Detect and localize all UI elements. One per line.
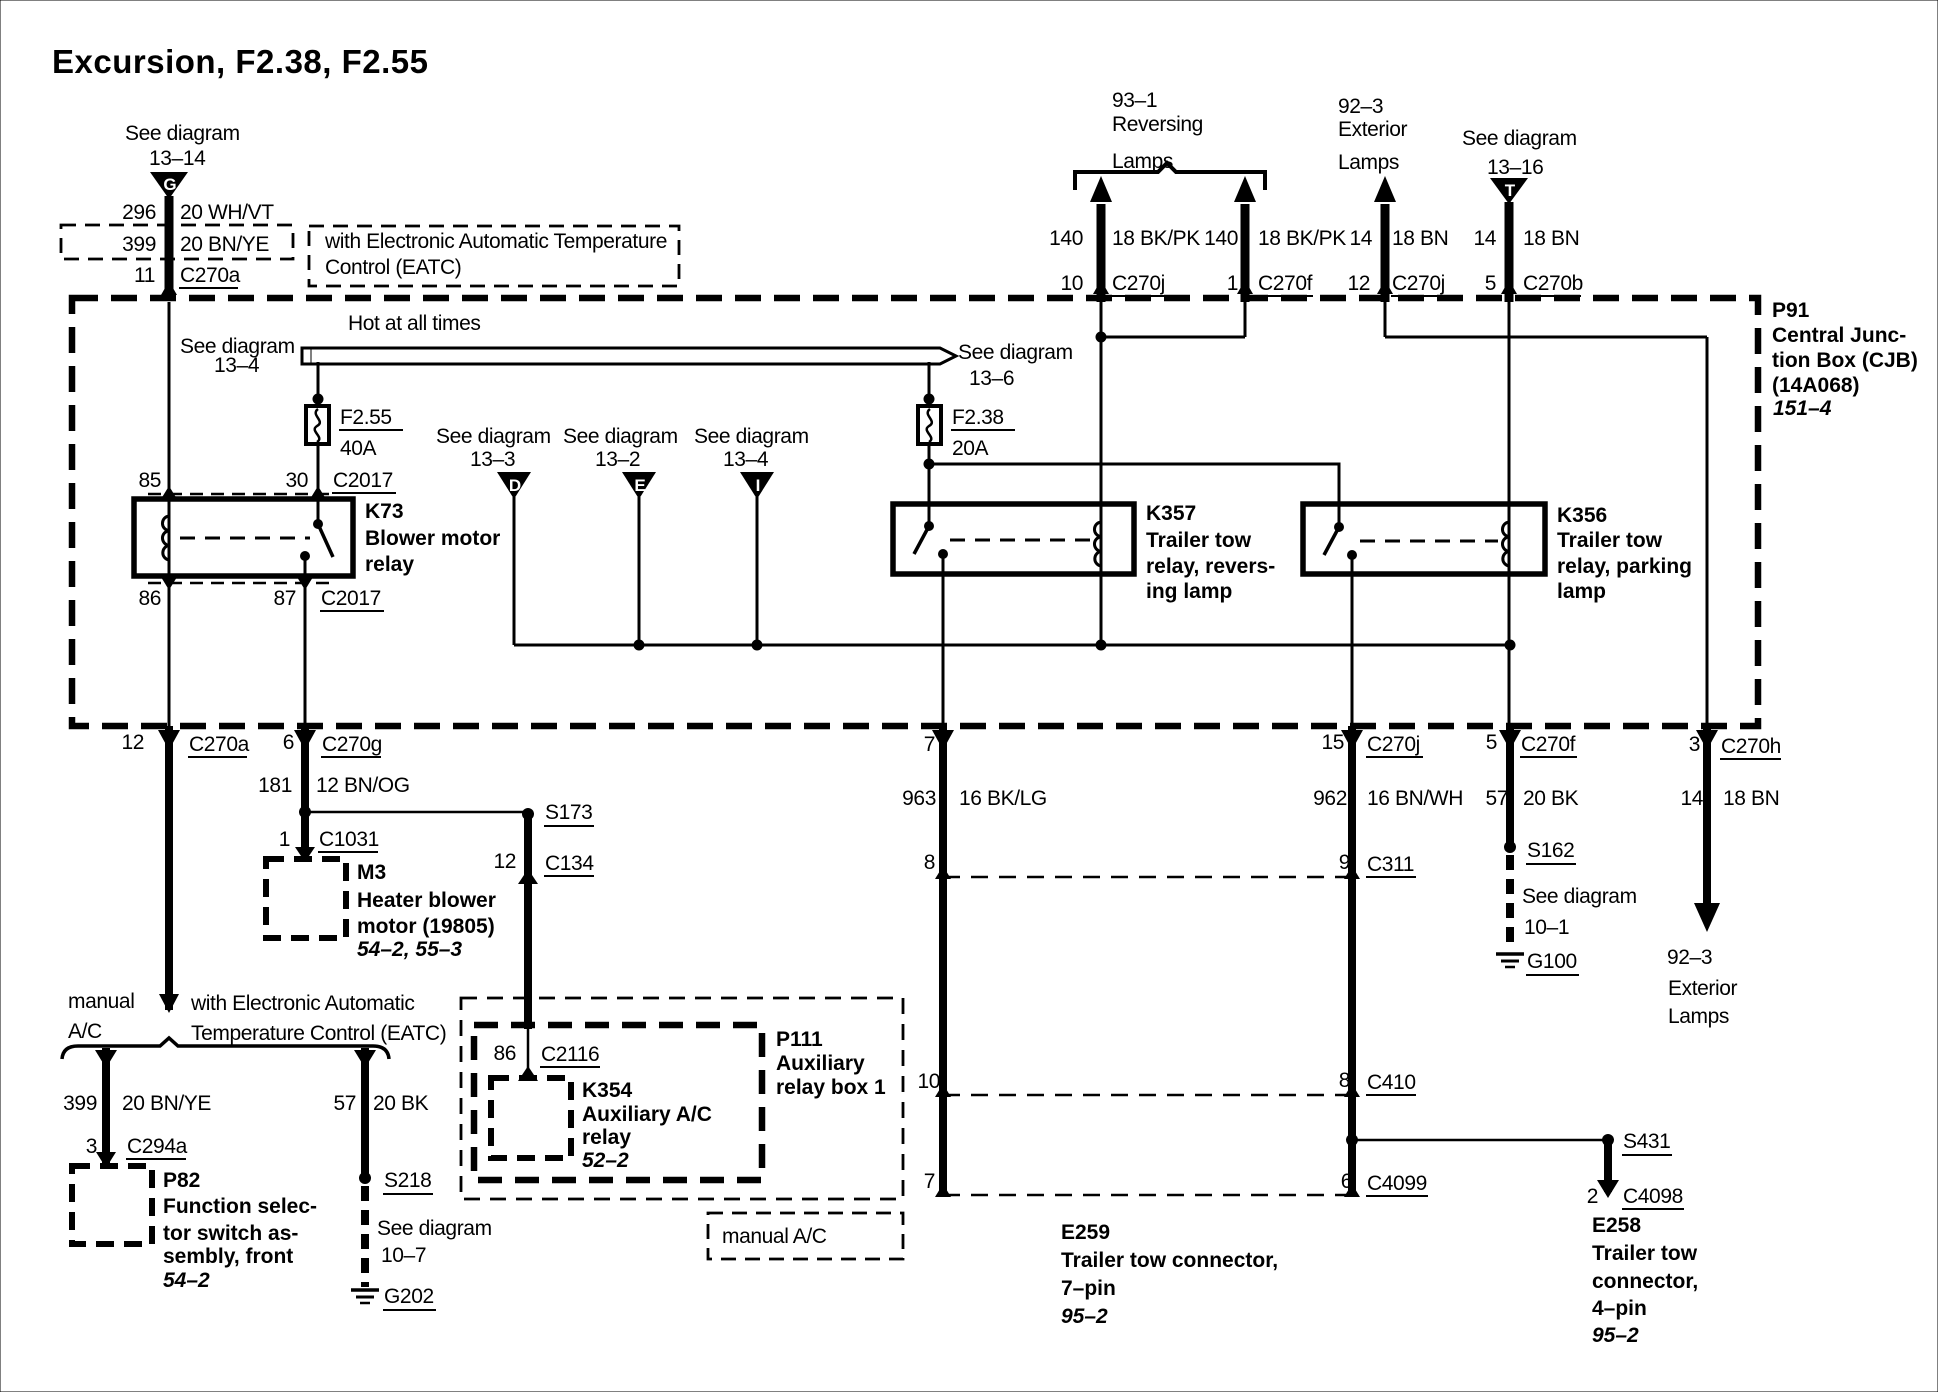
wire E259 trailer tow 7-pin xyxy=(939,726,947,1195)
svg-text:86: 86 xyxy=(493,1042,516,1065)
svg-text:Auxiliary: Auxiliary xyxy=(776,1052,865,1075)
svg-text:C2017: C2017 xyxy=(321,587,381,610)
svg-text:tion Box (CJB): tion Box (CJB) xyxy=(1772,349,1918,372)
wire G down to C270a xyxy=(165,196,174,294)
svg-text:C134: C134 xyxy=(545,852,594,875)
wire K357 switch out to pin 7 xyxy=(942,574,945,726)
svg-text:15: 15 xyxy=(1321,731,1344,754)
relay K73 box xyxy=(134,499,353,576)
svg-text:Exterior: Exterior xyxy=(1338,118,1408,141)
svg-text:140: 140 xyxy=(1204,227,1238,250)
node E triangle xyxy=(622,472,656,499)
wire C270a exit down to A/C split xyxy=(165,726,173,1010)
wire S218 to G202 dashed xyxy=(361,1186,369,1287)
svg-text:20 WH/VT: 20 WH/VT xyxy=(180,201,274,224)
svg-text:7: 7 xyxy=(924,733,935,756)
svg-text:12: 12 xyxy=(493,850,516,873)
svg-text:manual: manual xyxy=(68,990,134,1013)
wire pin 87 down to C270g exit xyxy=(304,576,307,726)
splice S218 dot xyxy=(359,1172,371,1184)
svg-text:C270g: C270g xyxy=(322,733,382,756)
svg-text:C270a: C270a xyxy=(180,264,241,287)
svg-text:Blower motor: Blower motor xyxy=(365,527,500,550)
svg-text:13–2: 13–2 xyxy=(595,448,640,471)
pin 85 connector arrow xyxy=(161,486,177,499)
svg-text:95–2: 95–2 xyxy=(1592,1324,1639,1347)
junction dot to S431 xyxy=(1346,1134,1358,1146)
svg-text:with Electronic Automatic: with Electronic Automatic xyxy=(190,992,414,1015)
wire EATC branch to S218 xyxy=(361,1048,369,1180)
svg-text:K73: K73 xyxy=(365,500,404,523)
node D triangle xyxy=(497,472,531,499)
wire S431 down to C4098 xyxy=(1604,1140,1612,1192)
svg-text:14: 14 xyxy=(1473,227,1496,250)
svg-text:2: 2 xyxy=(1587,1185,1598,1208)
svg-text:motor (19805): motor (19805) xyxy=(357,915,495,938)
svg-text:sembly, front: sembly, front xyxy=(163,1245,293,1268)
svg-text:57: 57 xyxy=(333,1092,356,1115)
dashed row to C4099 xyxy=(943,1194,1352,1197)
svg-text:181: 181 xyxy=(258,774,292,797)
svg-text:C4098: C4098 xyxy=(1623,1185,1683,1208)
svg-text:296: 296 xyxy=(122,201,156,224)
svg-text:18 BN: 18 BN xyxy=(1523,227,1579,250)
svg-text:M3: M3 xyxy=(357,861,386,884)
K357 coil xyxy=(1094,522,1101,566)
dashed row to C410 xyxy=(943,1094,1352,1097)
wire from D xyxy=(513,497,516,645)
svg-text:Heater blower: Heater blower xyxy=(357,889,496,912)
wire C270j pin10 down to K357 coil and return line xyxy=(1100,302,1103,645)
svg-text:4–pin: 4–pin xyxy=(1592,1297,1647,1320)
svg-text:See diagram: See diagram xyxy=(563,425,678,448)
brace over reversing lamp arrows xyxy=(1075,163,1265,190)
svg-text:Function selec-: Function selec- xyxy=(163,1195,317,1218)
svg-text:P82: P82 xyxy=(163,1169,200,1192)
svg-text:Temperature Control (EATC): Temperature Control (EATC) xyxy=(191,1022,446,1045)
wire from I xyxy=(756,497,759,645)
wire S173 down to C2116 xyxy=(524,814,532,1029)
connector C2017 dashed line top xyxy=(148,493,332,496)
relay K357 box xyxy=(893,504,1134,574)
wire C311 column xyxy=(1348,726,1356,1195)
heater blower motor M3 box xyxy=(266,859,346,938)
svg-text:7–pin: 7–pin xyxy=(1061,1277,1116,1300)
wire T down to C270b xyxy=(1505,202,1514,302)
svg-text:10: 10 xyxy=(1060,272,1083,295)
svg-text:10: 10 xyxy=(917,1070,940,1093)
node T triangle xyxy=(1490,178,1528,204)
svg-text:Reversing: Reversing xyxy=(1112,113,1203,136)
svg-text:C2116: C2116 xyxy=(541,1043,599,1066)
svg-text:C270h: C270h xyxy=(1721,735,1781,758)
svg-text:57: 57 xyxy=(1485,787,1508,810)
svg-text:See diagram: See diagram xyxy=(1462,127,1577,150)
junction dot at splice S173 branch xyxy=(299,806,311,818)
junction dot at F2.38 top xyxy=(924,394,935,405)
svg-text:54–2: 54–2 xyxy=(163,1269,210,1292)
svg-text:13–4: 13–4 xyxy=(214,354,260,377)
svg-text:relay box 1: relay box 1 xyxy=(776,1076,886,1099)
svg-text:5: 5 xyxy=(1485,272,1496,295)
pin 30 connector arrow xyxy=(310,486,326,499)
K356 coil xyxy=(1502,522,1509,566)
node G triangle xyxy=(150,172,188,199)
junction dot I xyxy=(752,640,763,651)
svg-text:30: 30 xyxy=(285,469,308,492)
wire bus to fuse F2.38 xyxy=(928,362,931,406)
svg-text:C410: C410 xyxy=(1367,1071,1416,1094)
svg-text:12: 12 xyxy=(1347,272,1370,295)
svg-text:399: 399 xyxy=(122,233,156,256)
dashed row to C311 xyxy=(943,876,1352,879)
svg-text:16 BK/LG: 16 BK/LG xyxy=(959,787,1047,810)
svg-text:F2.55: F2.55 xyxy=(340,406,392,429)
svg-text:1: 1 xyxy=(1227,272,1238,295)
wire from E xyxy=(638,497,641,645)
svg-text:Exterior: Exterior xyxy=(1668,977,1738,1000)
K357 switch xyxy=(924,521,934,531)
pin 87 connector arrow xyxy=(297,577,313,590)
svg-text:963: 963 xyxy=(902,787,936,810)
svg-text:G100: G100 xyxy=(1527,950,1577,973)
svg-text:D: D xyxy=(509,476,521,495)
svg-text:A/C: A/C xyxy=(68,1020,102,1043)
svg-text:18 BK/PK: 18 BK/PK xyxy=(1258,227,1346,250)
svg-text:C4099: C4099 xyxy=(1367,1172,1427,1195)
svg-text:13–16: 13–16 xyxy=(1487,156,1543,179)
junction dot E xyxy=(634,640,645,651)
svg-text:52–2: 52–2 xyxy=(582,1149,629,1172)
svg-text:962: 962 xyxy=(1313,787,1347,810)
connector arrow into M3 xyxy=(295,847,315,862)
svg-text:Trailer tow: Trailer tow xyxy=(1592,1242,1698,1265)
svg-text:(14A068): (14A068) xyxy=(1772,374,1860,397)
svg-text:relay, revers-: relay, revers- xyxy=(1146,555,1275,578)
wire bus to fuse F2.55 xyxy=(317,362,320,406)
wire F2.38 down and branch to relay switches xyxy=(928,444,931,526)
wire C270j pin12 branch to C270h exit xyxy=(1384,302,1387,337)
K73 coil xyxy=(168,499,171,576)
connector C2017 dashed line bottom xyxy=(148,582,332,585)
svg-text:5: 5 xyxy=(1486,731,1497,754)
svg-text:C270b: C270b xyxy=(1523,272,1583,295)
svg-text:E258: E258 xyxy=(1592,1214,1641,1237)
function selector switch P82 box xyxy=(72,1166,152,1244)
svg-text:Trailer tow connector,: Trailer tow connector, xyxy=(1061,1249,1278,1272)
svg-text:See diagram: See diagram xyxy=(958,341,1073,364)
svg-text:85: 85 xyxy=(138,469,161,492)
K356 mechanical link dashed xyxy=(1360,540,1498,543)
svg-text:with Electronic Automatic Temp: with Electronic Automatic Temperature xyxy=(324,230,667,253)
wire to splice S173 xyxy=(305,811,528,814)
svg-text:18 BN: 18 BN xyxy=(1723,787,1779,810)
svg-text:connector,: connector, xyxy=(1592,1270,1698,1293)
fuse F2.55 40A xyxy=(306,406,329,444)
svg-text:92–3: 92–3 xyxy=(1667,946,1712,969)
svg-text:Lamps: Lamps xyxy=(1338,151,1399,174)
svg-text:14: 14 xyxy=(1349,227,1372,250)
svg-text:20 BN/YE: 20 BN/YE xyxy=(122,1092,211,1115)
connector C134 arrow xyxy=(518,869,538,884)
svg-text:Lamps: Lamps xyxy=(1112,150,1173,173)
svg-text:12 BN/OG: 12 BN/OG xyxy=(316,774,410,797)
wire into K354 xyxy=(527,1029,530,1078)
svg-text:140: 140 xyxy=(1049,227,1083,250)
splice S173 dot xyxy=(522,808,534,820)
K73 switch xyxy=(313,519,323,529)
svg-text:See diagram: See diagram xyxy=(125,122,240,145)
arrow to reversing lamps left xyxy=(1097,204,1106,302)
svg-text:E259: E259 xyxy=(1061,1221,1110,1244)
svg-text:95–2: 95–2 xyxy=(1061,1305,1108,1328)
svg-text:P111: P111 xyxy=(776,1028,823,1051)
svg-text:13–4: 13–4 xyxy=(723,448,769,471)
svg-text:relay: relay xyxy=(582,1126,631,1149)
svg-text:54–2, 55–3: 54–2, 55–3 xyxy=(357,938,462,961)
svg-text:87: 87 xyxy=(273,587,296,610)
svg-text:Excursion, F2.38, F2.55: Excursion, F2.38, F2.55 xyxy=(52,43,429,80)
arrow to exterior lamps xyxy=(1381,204,1390,302)
pin 86 connector arrow xyxy=(161,577,177,590)
svg-text:lamp: lamp xyxy=(1557,580,1606,603)
svg-text:40A: 40A xyxy=(340,437,377,460)
node I triangle xyxy=(740,472,774,499)
svg-text:1: 1 xyxy=(279,828,290,851)
svg-text:13–14: 13–14 xyxy=(149,147,206,170)
svg-text:K354: K354 xyxy=(582,1079,633,1102)
svg-text:151–4: 151–4 xyxy=(1773,397,1832,420)
K357 mechanical link dashed xyxy=(950,539,1090,542)
svg-text:10–7: 10–7 xyxy=(381,1244,426,1267)
svg-text:3: 3 xyxy=(86,1135,97,1158)
svg-text:See diagram: See diagram xyxy=(436,425,551,448)
relay K356 box xyxy=(1303,504,1545,574)
svg-text:13–3: 13–3 xyxy=(470,448,515,471)
svg-text:18 BN: 18 BN xyxy=(1392,227,1448,250)
svg-text:T: T xyxy=(1505,181,1516,200)
svg-text:G: G xyxy=(163,175,176,194)
note box with EATC xyxy=(309,226,679,286)
junction dot K357 coil return xyxy=(1096,640,1107,651)
svg-text:C294a: C294a xyxy=(127,1135,188,1158)
splice S162 dot xyxy=(1504,841,1516,853)
svg-text:G202: G202 xyxy=(384,1285,434,1308)
svg-text:Control (EATC): Control (EATC) xyxy=(325,256,461,279)
svg-text:I: I xyxy=(756,476,761,495)
svg-text:Trailer tow: Trailer tow xyxy=(1557,529,1663,552)
svg-text:C270j: C270j xyxy=(1367,733,1420,756)
wire F2.55 to pin 30 xyxy=(317,444,320,524)
wire horizontal relay coil return xyxy=(514,644,1510,647)
power bus hot at all times xyxy=(302,348,956,364)
connector arrow into P82 xyxy=(96,1152,116,1168)
ground G100 xyxy=(1496,952,1524,956)
svg-text:C270j: C270j xyxy=(1112,272,1165,295)
svg-text:C311: C311 xyxy=(1367,853,1414,876)
wire S162 to G100 dashed xyxy=(1506,855,1514,950)
svg-text:20A: 20A xyxy=(952,437,989,460)
svg-text:399: 399 xyxy=(63,1092,97,1115)
wire C270f to S162 xyxy=(1506,726,1514,848)
svg-text:relay, parking: relay, parking xyxy=(1557,555,1692,578)
svg-text:6: 6 xyxy=(283,731,294,754)
svg-text:S431: S431 xyxy=(1623,1130,1670,1153)
wire pin 85 from C270a xyxy=(168,302,171,499)
svg-text:See diagram: See diagram xyxy=(1522,885,1637,908)
svg-text:8: 8 xyxy=(924,851,935,874)
svg-text:ing lamp: ing lamp xyxy=(1146,580,1232,603)
arrow to reversing lamps right xyxy=(1241,204,1250,302)
wire C270h to exterior lamps xyxy=(1703,726,1711,905)
svg-text:K357: K357 xyxy=(1146,502,1196,525)
junction dot at F2.55 top xyxy=(313,394,324,405)
ground G202 xyxy=(351,1288,379,1292)
svg-text:11: 11 xyxy=(134,264,155,287)
svg-text:Trailer tow: Trailer tow xyxy=(1146,529,1252,552)
svg-text:tor switch as-: tor switch as- xyxy=(163,1222,298,1245)
wire pin 86 down to C270a exit xyxy=(168,576,171,726)
svg-text:C2017: C2017 xyxy=(333,469,393,492)
wire to splice S431 xyxy=(1352,1139,1608,1142)
svg-text:92–3: 92–3 xyxy=(1338,95,1383,118)
svg-text:F2.38: F2.38 xyxy=(952,406,1004,429)
svg-text:Auxiliary A/C: Auxiliary A/C xyxy=(582,1103,712,1126)
junction dot K356 coil return xyxy=(1505,640,1516,651)
svg-text:C270f: C270f xyxy=(1521,733,1576,756)
K73 mechanical link dashed xyxy=(180,537,310,540)
svg-text:See diagram: See diagram xyxy=(377,1217,492,1240)
svg-text:86: 86 xyxy=(138,587,161,610)
svg-text:C270f: C270f xyxy=(1258,272,1313,295)
svg-text:16 BN/WH: 16 BN/WH xyxy=(1367,787,1463,810)
wire C270b pin5 down through K356 coil to C270f exit xyxy=(1508,302,1511,726)
fuse F2.38 20A xyxy=(918,406,941,444)
P111 inner border xyxy=(474,1025,762,1180)
svg-text:manual A/C: manual A/C xyxy=(722,1225,827,1248)
svg-text:E: E xyxy=(634,476,645,495)
svg-text:10–1: 10–1 xyxy=(1524,916,1569,939)
auxiliary relay box P111 outer border xyxy=(461,998,903,1199)
svg-text:14: 14 xyxy=(1680,787,1703,810)
svg-text:C270j: C270j xyxy=(1392,272,1445,295)
fork bracket xyxy=(62,1038,389,1059)
label box 399 20 BN/YE xyxy=(61,225,293,259)
svg-text:P91: P91 xyxy=(1772,299,1810,322)
svg-text:3: 3 xyxy=(1689,733,1700,756)
K356 switch xyxy=(1334,522,1344,532)
wire manual A/C branch xyxy=(102,1048,110,1163)
svg-text:Hot at all times: Hot at all times xyxy=(348,312,480,335)
svg-text:93–1: 93–1 xyxy=(1112,89,1157,112)
wire C270g exit down to M3 xyxy=(301,726,309,855)
wire K356 switch out to pin 15 xyxy=(1351,574,1354,726)
svg-text:Lamps: Lamps xyxy=(1668,1005,1729,1028)
auxiliary A/C relay K354 box xyxy=(491,1078,571,1158)
svg-text:Central Junc-: Central Junc- xyxy=(1772,324,1906,347)
svg-text:S162: S162 xyxy=(1527,839,1574,862)
central junction box P91 border xyxy=(72,298,1758,726)
svg-text:See diagram: See diagram xyxy=(694,425,809,448)
svg-text:12: 12 xyxy=(121,731,144,754)
svg-text:20 BK: 20 BK xyxy=(373,1092,429,1115)
svg-text:18 BK/PK: 18 BK/PK xyxy=(1112,227,1200,250)
svg-text:7: 7 xyxy=(924,1170,935,1193)
svg-text:C270a: C270a xyxy=(189,733,250,756)
manual A/C note box xyxy=(708,1213,903,1259)
svg-text:20 BK: 20 BK xyxy=(1523,787,1579,810)
splice S431 dot xyxy=(1602,1134,1614,1146)
svg-text:S173: S173 xyxy=(545,801,592,824)
svg-text:relay: relay xyxy=(365,553,414,576)
wire C270f pin1 down joining pin10 wire xyxy=(1244,302,1247,337)
svg-text:13–6: 13–6 xyxy=(969,367,1014,390)
svg-text:C1031: C1031 xyxy=(319,828,379,851)
svg-text:K356: K356 xyxy=(1557,504,1607,527)
svg-text:S218: S218 xyxy=(384,1169,431,1192)
svg-text:20 BN/YE: 20 BN/YE xyxy=(180,233,269,256)
